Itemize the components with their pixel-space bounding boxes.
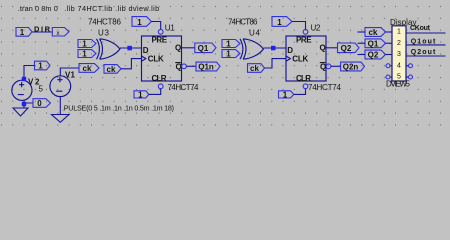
node flag 1 (U4 input B) (222, 50, 240, 59)
xor gate U4 (240, 39, 263, 59)
svg-text:Q1: Q1 (198, 44, 209, 53)
wire DIR (32, 31, 52, 33)
svg-text:Q2: Q2 (341, 44, 352, 53)
svg-text:Q: Q (320, 44, 326, 53)
wire U1 CLR (149, 89, 161, 95)
svg-text:1: 1 (20, 28, 25, 37)
svg-text:D: D (287, 46, 293, 55)
svg-text:1: 1 (82, 50, 87, 59)
svg-text:0: 0 (37, 99, 42, 108)
svg-text:74HCT86: 74HCT86 (228, 18, 258, 27)
wire display in 3 (386, 54, 393, 56)
wire U3 out to D (120, 47, 142, 49)
ground (V2) (13, 108, 28, 116)
svg-text:D: D (143, 46, 149, 55)
svg-text:.lib 74HCT.lib .lib dview.lib: .lib 74HCT.lib .lib dview.lib (64, 4, 159, 13)
svg-text:1: 1 (226, 39, 231, 48)
svg-text:V1: V1 (65, 71, 76, 80)
svg-text:.tran 0 8m 0: .tran 0 8m 0 (18, 4, 58, 13)
wire Q2out (406, 55, 446, 57)
svg-text:DVIEW5: DVIEW5 (386, 80, 411, 89)
svg-text:CKout: CKout (410, 25, 431, 32)
node flag 1 (V2 plus) (35, 61, 51, 70)
svg-text:ck: ck (83, 64, 92, 73)
wire U2 CLR (294, 89, 306, 95)
svg-text:Q2n: Q2n (343, 63, 359, 72)
svg-text:4: 4 (397, 62, 401, 69)
port x (DIR destination) (52, 28, 69, 38)
bubble U2 CLR (303, 84, 308, 89)
wire CKout (406, 32, 446, 34)
ground (V1) (52, 115, 70, 123)
svg-text:CLR: CLR (296, 74, 311, 83)
display stub left 5 (390, 76, 392, 78)
svg-text:U4: U4 (249, 29, 261, 38)
net flag ck (V1 out) (79, 64, 99, 73)
node flag 1 (U2 PRE) (272, 17, 292, 27)
bubble U1 CLR (158, 84, 163, 89)
svg-text:U3: U3 (98, 29, 110, 38)
display U5 box DVIEW5 (392, 26, 406, 81)
svg-text:74HCT74: 74HCT74 (168, 83, 200, 92)
svg-text:Q1: Q1 (368, 39, 379, 48)
svg-text:74HCT86: 74HCT86 (88, 18, 122, 27)
wire tail ck (358, 31, 366, 33)
wire U2 PRE (292, 22, 306, 30)
svg-text:1: 1 (397, 29, 401, 36)
svg-text:DIR: DIR (34, 24, 51, 33)
bubble U2 Qn (326, 64, 331, 69)
svg-text:Q2out: Q2out (411, 49, 436, 56)
node flag 1 (U3 input B) (78, 50, 96, 59)
flip-flop U1 box (142, 36, 182, 81)
wire tail Q2 (358, 54, 366, 56)
U2 pin CLK (286, 56, 290, 61)
svg-text:CLK: CLK (148, 55, 164, 64)
bubble U1 Qn (182, 64, 187, 69)
wire V2 bottom (24, 100, 33, 108)
display stub left 4 (390, 65, 392, 67)
svg-text:3: 3 (397, 51, 401, 58)
svg-text:U2: U2 (311, 24, 322, 33)
net flag ck (to U2 CLK) (248, 64, 265, 73)
svg-text:ck: ck (250, 64, 259, 73)
svg-text:2: 2 (397, 40, 401, 47)
wire U4 out to D (264, 47, 287, 49)
wire U1 PRE (151, 22, 160, 30)
svg-text:1: 1 (138, 90, 143, 99)
node flag 1 (U3 input A) (78, 39, 96, 48)
U1 pin CLK (142, 56, 146, 61)
node flag 0 (V2 minus) (33, 99, 50, 109)
svg-text:1: 1 (82, 39, 87, 48)
bubble U1 PRE (158, 29, 163, 34)
net flag Q1 (195, 43, 216, 53)
net flag Q2n (341, 62, 365, 71)
junction V2 top (22, 77, 26, 81)
node flag 1 (U4 input A) (222, 39, 240, 48)
voltage source V1 (50, 76, 71, 97)
net flag Q2 (338, 43, 360, 53)
wire ck to U1 CLK (121, 59, 142, 69)
net flag Q1 (display in 2) (365, 39, 386, 48)
xor gate U3 (97, 39, 120, 59)
svg-text:74HCT74: 74HCT74 (308, 83, 342, 92)
voltage source V2 (12, 80, 32, 100)
display stub right 5 (406, 76, 409, 78)
svg-text:1: 1 (226, 50, 231, 59)
wire Q1out (406, 44, 446, 46)
svg-text:Q1n: Q1n (198, 63, 214, 72)
svg-text:1: 1 (38, 62, 43, 71)
wire ck to U2 CLK (265, 59, 287, 68)
svg-text:CLK: CLK (292, 55, 308, 64)
wire V2 top (24, 66, 35, 82)
wire U1 Qn out (186, 65, 196, 67)
svg-text:U1: U1 (165, 24, 176, 33)
net flag Q2 (display in 3) (365, 50, 386, 59)
svg-text:ck: ck (369, 28, 378, 37)
svg-text:PRE: PRE (296, 36, 312, 45)
wire tail Q1 (358, 42, 366, 44)
net flag ck (display in 1) (365, 28, 386, 37)
node flag 1 (U1 PRE) (132, 17, 151, 27)
svg-text:.PULSE(0 5 .1m .1n .1n 0.5m .1: .PULSE(0 5 .1m .1n .1n 0.5m .1m 18) (62, 104, 174, 113)
node flag 1 (DIR source) (16, 28, 32, 38)
wire display in 2 (386, 42, 393, 44)
net flag ck (to U1 CLK) (104, 65, 121, 74)
svg-text:Q: Q (176, 62, 182, 71)
junction V2 bottom (22, 102, 26, 106)
node flag 1 (U2 CLR) (279, 90, 294, 99)
wire U2 Qn out (331, 65, 341, 67)
node flag 1 (U1 CLR) (134, 90, 149, 99)
wire U1 Q out (182, 47, 195, 49)
wire U2 Q out (326, 47, 338, 49)
svg-text:Q1out: Q1out (411, 38, 436, 45)
svg-text:Q: Q (175, 44, 181, 53)
svg-text:PRE: PRE (152, 36, 168, 45)
svg-text:1: 1 (277, 18, 282, 27)
junction U3 out (127, 46, 131, 51)
svg-text:1: 1 (283, 90, 288, 99)
svg-text:5: 5 (39, 85, 44, 94)
svg-text:ck: ck (107, 65, 116, 74)
wire V1 top (60, 68, 79, 76)
display stub right 4 (406, 65, 409, 67)
wire V1 bottom (59, 96, 61, 114)
flip-flop U2 box (286, 36, 326, 81)
wire display in 1 (386, 31, 393, 33)
svg-text:Q: Q (320, 62, 326, 71)
svg-text:CLR: CLR (152, 74, 167, 83)
net flag Q1n (196, 62, 220, 71)
bubble U2 PRE (303, 29, 308, 34)
svg-text:Q2: Q2 (368, 51, 379, 60)
junction U4 out (271, 46, 276, 51)
svg-text:1: 1 (137, 18, 142, 27)
